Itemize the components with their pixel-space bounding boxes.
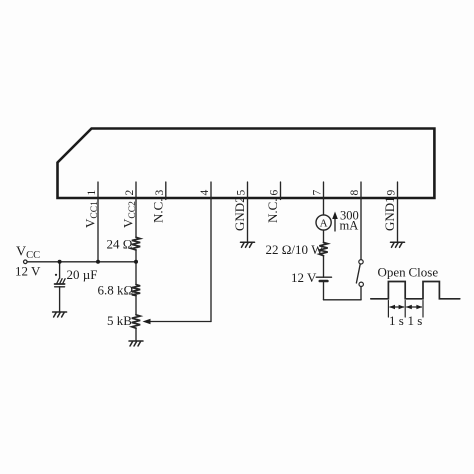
svg-text:1: 1 bbox=[86, 190, 98, 196]
potentiometer 5kB bbox=[132, 315, 140, 328]
wiper arrowhead bbox=[143, 319, 151, 324]
waveform extension line 1 bbox=[387, 301, 389, 318]
junction dot pin2 bbox=[134, 260, 138, 264]
svg-text:5: 5 bbox=[236, 190, 248, 196]
waveform extension line 3 bbox=[422, 301, 424, 318]
svg-text:12 V: 12 V bbox=[15, 264, 41, 279]
svg-text:N.C.: N.C. bbox=[265, 198, 280, 223]
ground pin2 branch bbox=[129, 341, 143, 346]
svg-text:9: 9 bbox=[386, 190, 398, 196]
svg-text:1 s: 1 s bbox=[389, 313, 404, 328]
junction dot capacitor bbox=[58, 260, 62, 264]
wire pin1 to Vcc rail bbox=[97, 198, 99, 262]
ground GND2 bbox=[241, 242, 255, 247]
wire capacitor to ground bbox=[59, 287, 61, 312]
wire switch bottom bbox=[360, 287, 362, 300]
switch S1 top contact bbox=[359, 260, 363, 264]
dimension arrow 1s right bbox=[407, 306, 422, 308]
wire pin8 to switch bbox=[360, 198, 362, 260]
pin 5 stub bbox=[247, 182, 249, 198]
svg-text:A: A bbox=[320, 217, 328, 229]
waveform extension line 2 bbox=[404, 301, 406, 318]
svg-text:VCC: VCC bbox=[16, 245, 40, 262]
capacitor C1 bottom plate bbox=[55, 286, 65, 288]
bottom wire to switch bbox=[324, 299, 362, 301]
svg-text:24 Ω: 24 Ω bbox=[107, 237, 133, 252]
wire battery to bottom rail bbox=[323, 281, 325, 300]
wire pin5 to ground bbox=[247, 198, 249, 242]
svg-text:6: 6 bbox=[269, 190, 281, 196]
wire pin4 down bbox=[210, 198, 212, 322]
pin 7 stub bbox=[323, 182, 325, 198]
battery BT1 12V bbox=[316, 276, 331, 278]
resistor 6.8k bbox=[132, 285, 140, 296]
pin 3 stub bbox=[165, 182, 167, 200]
wire junction to 6.8k bbox=[135, 262, 137, 284]
svg-text:3: 3 bbox=[154, 190, 166, 196]
wire capacitor branch bbox=[59, 262, 61, 279]
capacitor C1 20uF plus mark bbox=[55, 274, 57, 276]
capacitor C1 hatched plate bbox=[55, 279, 66, 284]
current arrow at ammeter bbox=[334, 217, 336, 232]
svg-text:4: 4 bbox=[199, 190, 211, 196]
pin 9 stub bbox=[397, 182, 399, 198]
svg-text:5 kB: 5 kB bbox=[107, 313, 132, 328]
svg-text:2: 2 bbox=[124, 190, 136, 196]
wire pot wiper horizontal bbox=[148, 321, 211, 323]
wire pin7 to ammeter bbox=[323, 198, 325, 215]
junction dot pin1 bbox=[96, 260, 100, 264]
pin 1 stub bbox=[97, 182, 99, 198]
wire 22ohm to battery bbox=[323, 256, 325, 278]
svg-text:8: 8 bbox=[349, 190, 361, 196]
svg-text:1 s: 1 s bbox=[408, 313, 423, 328]
svg-text:N.C.: N.C. bbox=[150, 198, 165, 223]
pin 6 stub bbox=[280, 182, 282, 200]
ground GND1 bbox=[391, 242, 405, 247]
wire pot to ground bbox=[135, 328, 137, 340]
wire ammeter to 22ohm bbox=[323, 230, 325, 242]
ammeter U2 circle bbox=[316, 215, 331, 230]
switch lever bbox=[356, 264, 360, 283]
svg-text:6.8 kΩ: 6.8 kΩ bbox=[98, 283, 134, 298]
pin 4 stub bbox=[210, 182, 212, 198]
svg-text:VCC2: VCC2 bbox=[121, 201, 139, 228]
svg-text:GND2: GND2 bbox=[232, 196, 247, 231]
wire pin9 to ground bbox=[397, 198, 399, 242]
switch bottom contact bbox=[359, 282, 363, 286]
resistor 22ohm 10W bbox=[319, 243, 327, 256]
svg-text:mA: mA bbox=[340, 219, 359, 233]
svg-text:12 V: 12 V bbox=[291, 270, 317, 285]
IC package outline U1 bbox=[58, 129, 435, 199]
svg-text:Open: Open bbox=[378, 265, 407, 280]
waveform open-close bbox=[371, 282, 460, 299]
wire pin2 to resistor 24ohm bbox=[135, 198, 137, 237]
svg-text:Close: Close bbox=[409, 265, 439, 280]
pin 2 stub bbox=[135, 182, 137, 198]
wire Vcc rail horizontal bbox=[27, 261, 136, 263]
svg-text:7: 7 bbox=[312, 190, 324, 196]
svg-text:VCC1: VCC1 bbox=[83, 201, 101, 228]
svg-text:GND1: GND1 bbox=[382, 196, 397, 231]
dimension arrow 1s left bbox=[390, 306, 404, 308]
ground capacitor branch bbox=[53, 312, 67, 317]
svg-text:22 Ω/10 W: 22 Ω/10 W bbox=[266, 242, 325, 257]
wire 6.8k to pot bbox=[135, 296, 137, 315]
svg-text:20 µF: 20 µF bbox=[67, 267, 98, 282]
wire 24ohm to junction bbox=[135, 250, 137, 262]
resistor 24ohm bbox=[132, 237, 140, 250]
pin 8 stub bbox=[360, 182, 362, 198]
Vcc input terminal bbox=[24, 260, 28, 264]
